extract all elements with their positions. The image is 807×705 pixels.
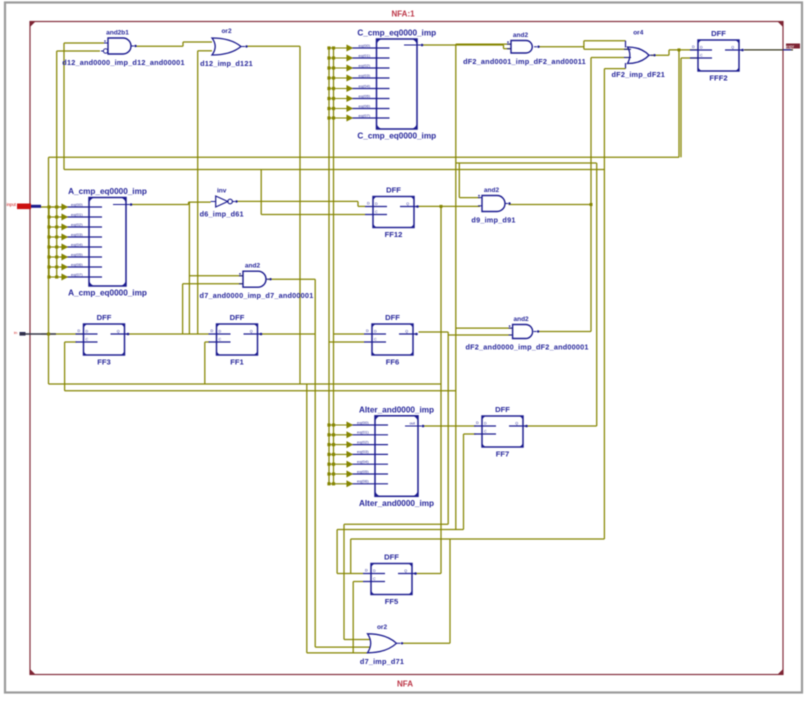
svg-text:eq(07): eq(07) <box>359 113 371 118</box>
svg-text:Q: Q <box>405 330 408 334</box>
svg-text:in: in <box>14 330 17 335</box>
svg-text:D: D <box>375 202 378 206</box>
Alter input bus taps with arrowheads <box>327 422 352 486</box>
wire H FF6.D <box>334 333 365 335</box>
svg-text:D: D <box>365 569 368 573</box>
svg-text:FFF2: FFF2 <box>709 74 727 83</box>
svg-text:eq(06): eq(06) <box>359 103 371 108</box>
svg-text:eq(06): eq(06) <box>71 262 83 267</box>
svg-text:and2: and2 <box>514 316 530 323</box>
wire V FF7.Q up x596 <box>596 163 598 426</box>
wire H FF6.Q <box>419 331 449 333</box>
svg-text:Q: Q <box>404 569 407 573</box>
wire H under or2b <box>307 652 367 654</box>
wire H FF12.C <box>261 214 365 216</box>
wire V and2b1.A drop <box>63 43 65 170</box>
wire H or2b.A <box>344 639 370 641</box>
wire V step up <box>583 41 585 50</box>
wire H long y382 <box>49 383 442 385</box>
svg-text:DFF: DFF <box>385 313 400 322</box>
svg-text:eq(00): eq(00) <box>71 202 83 207</box>
AND gate and2 (dF2_and0001) <box>507 41 537 54</box>
svg-text:Q: Q <box>117 330 120 334</box>
wire V inv.A net down <box>188 202 190 334</box>
svg-text:Q: Q <box>731 46 734 50</box>
wire V FF5.C down <box>352 582 354 653</box>
svg-text:inv: inv <box>217 188 227 195</box>
wire H and2-d7.B <box>183 283 243 285</box>
svg-text:and2b1: and2b1 <box>106 30 129 37</box>
svg-text:eq(02): eq(02) <box>71 222 83 227</box>
wire V or4.in4 down to Hc <box>603 69 605 539</box>
wire H FF7.Q <box>527 425 597 427</box>
wire V FFF2.C down to H1 <box>680 58 682 157</box>
block Alter_and0000_imp (Alter_and) <box>347 416 422 497</box>
svg-text:eq(04): eq(04) <box>359 83 371 88</box>
svg-text:eq(05): eq(05) <box>357 469 369 474</box>
wire H FF5.D <box>337 573 363 575</box>
wire V FF7.C down <box>463 434 465 530</box>
node H1-FFF2 junction junction <box>678 48 681 51</box>
wire V or4.out jog <box>668 50 670 55</box>
wire V jog and2-dF2a.B <box>503 45 505 49</box>
wire V left feedback x48 <box>48 157 50 384</box>
svg-text:eq(00): eq(00) <box>359 43 371 48</box>
wire H feedback H3 y163 <box>456 162 597 164</box>
wire H feedback H2 y167 <box>64 169 604 171</box>
svg-text:Q: Q <box>406 202 409 206</box>
svg-text:NFA: NFA <box>397 680 413 689</box>
wire V or4.in1 drop <box>625 41 627 48</box>
svg-text:D: D <box>476 421 479 425</box>
svg-text:eq(06): eq(06) <box>357 479 369 484</box>
svg-text:eq(05): eq(05) <box>359 93 371 98</box>
wire V or4.in4 rise <box>625 63 627 69</box>
svg-text:or2: or2 <box>377 624 388 631</box>
wire H FF5.Q <box>416 573 441 575</box>
svg-text:d7_imp_d71: d7_imp_d71 <box>360 657 404 666</box>
svg-text:eq(03): eq(03) <box>71 232 83 237</box>
svg-text:FF5: FF5 <box>385 597 399 606</box>
node d9out-591 junction junction <box>590 203 593 206</box>
wire V jog inv.A <box>188 202 190 204</box>
wire H step top <box>584 40 626 42</box>
svg-text:d6_imp_d61: d6_imp_d61 <box>200 210 244 219</box>
wire H FF1.Q <box>261 333 315 335</box>
svg-text:C: C <box>375 210 378 214</box>
wire H FF6.C <box>329 341 364 343</box>
wire H A_cmp.out <box>132 204 189 206</box>
wire H and2-dF2a.A <box>456 43 511 45</box>
wire V x337 to FF5.D <box>336 530 338 574</box>
svg-text:or4: or4 <box>633 30 644 37</box>
svg-text:D: D <box>692 45 695 49</box>
AND gate and2 (dF2_and0000) <box>509 325 537 339</box>
wire V C-Alter bus outer <box>328 48 330 484</box>
svg-text:DFF: DFF <box>386 186 401 195</box>
wire H FF3.C <box>65 341 77 343</box>
D flip-flop FF12 <box>365 197 418 228</box>
svg-text:eq(03): eq(03) <box>359 73 371 78</box>
svg-text:eq(03): eq(03) <box>357 449 369 454</box>
AND gate and2 (d9_imp) <box>478 196 508 212</box>
wire H FF12.Q to and2-d9.B <box>418 205 480 207</box>
wire H and2b1.B <box>57 50 100 52</box>
svg-text:eq(01): eq(01) <box>71 212 83 217</box>
block A_cmp_eq0000_imp (A_cmp) <box>61 198 130 287</box>
wire V FF12.Q net down to FF5.Q <box>440 206 442 573</box>
svg-text:C: C <box>86 338 89 342</box>
wire V x350 to FF5.D <box>350 539 352 574</box>
svg-text:eq(07): eq(07) <box>71 272 83 277</box>
A_cmp input bus taps with arrowheads <box>47 204 67 279</box>
wire H C_cmp.out <box>422 44 504 46</box>
wire H or2a.B stub <box>198 50 212 52</box>
wire H feedback H1 y155 <box>49 156 680 158</box>
svg-text:C: C <box>484 430 487 434</box>
D flip-flop FFF2 <box>690 40 743 71</box>
wire H and2b1.out <box>135 45 183 47</box>
wire H and2-d9.A <box>459 197 480 199</box>
svg-text:eq(05): eq(05) <box>71 252 83 257</box>
wire H inv.A <box>189 201 211 203</box>
OR gate or2 (d12_imp) <box>212 38 245 55</box>
C_cmp input bus taps with arrowheads <box>327 45 352 120</box>
wire H or4.in2 <box>584 48 630 50</box>
svg-text:FF6: FF6 <box>386 358 400 367</box>
wire V or2a.out down <box>299 46 301 384</box>
AND gate and2 (d7_and0000) <box>239 271 269 287</box>
svg-text:and2: and2 <box>245 263 261 270</box>
wire H and2-dF2a.B <box>504 48 512 50</box>
svg-text:FF7: FF7 <box>496 450 510 459</box>
node A-bus tap1 junction <box>55 206 58 209</box>
wire H bundle a y524 <box>344 523 448 525</box>
svg-text:D: D <box>211 329 214 333</box>
wire V jog FF12.D <box>357 201 359 206</box>
wire H long y392 <box>65 390 456 392</box>
svg-text:D: D <box>373 569 376 573</box>
D flip-flop FF1 <box>209 324 262 355</box>
svg-text:D: D <box>219 330 222 334</box>
wire H FFF2.Q to expr <box>744 49 793 51</box>
wire H or4.in4b <box>604 68 625 70</box>
svg-text:C: C <box>373 577 376 581</box>
svg-text:A_cmp_eq0000_imp: A_cmp_eq0000_imp <box>68 187 147 196</box>
svg-text:d12_and0000_imp_d12_and00001: d12_and0000_imp_d12_and00001 <box>62 58 184 67</box>
svg-text:eq(01): eq(01) <box>359 53 371 58</box>
wire H or2b.B <box>315 646 370 648</box>
wire H Alter.out to FF7.D <box>423 425 476 427</box>
wire H FF3.Q to FF1.D <box>128 333 209 335</box>
svg-text:C_cmp_eq0000_imp: C_cmp_eq0000_imp <box>357 132 436 141</box>
wire H FF5.C <box>353 581 363 583</box>
svg-text:FF1: FF1 <box>230 358 244 367</box>
svg-text:NFA:1: NFA:1 <box>391 10 415 19</box>
svg-text:DFF: DFF <box>97 313 112 322</box>
wire H FF1.C <box>205 341 210 343</box>
svg-text:C: C <box>374 338 377 342</box>
wire H or2b.out <box>402 642 450 644</box>
wire V and2-d9.A up to H3 <box>458 163 460 198</box>
inverter inv (d6_imp) <box>211 196 236 207</box>
D flip-flop FF5 <box>363 564 416 595</box>
wire V FF12.C up to H2 <box>260 170 262 215</box>
wire H and2-dF2a.out <box>538 46 584 48</box>
wire H FF3.D from in marker <box>41 333 84 335</box>
wire V FF1.C down <box>204 342 206 384</box>
wire V or2b.out up <box>449 539 451 643</box>
node A-bus tap0 junction <box>48 206 51 209</box>
svg-text:and2: and2 <box>513 32 529 39</box>
svg-text:FF12: FF12 <box>385 230 403 239</box>
wire H or2a.out <box>247 45 301 47</box>
wire H FFF2.C <box>681 57 698 59</box>
wire H inv.out <box>237 200 358 202</box>
svg-text:DFF: DFF <box>711 29 726 38</box>
svg-text:expr: expr <box>786 44 795 49</box>
wire H and2-d7.out <box>268 278 316 280</box>
wire V FF6.Q jog down <box>447 332 449 524</box>
svg-text:D: D <box>700 46 703 50</box>
svg-text:d7_and0000_imp_d7_and00001: d7_and0000_imp_d7_and00001 <box>200 291 314 300</box>
svg-text:D: D <box>484 422 487 426</box>
wire V x344 down to or2b.A <box>343 524 345 639</box>
svg-text:eq(04): eq(04) <box>357 459 369 464</box>
svg-text:DFF: DFF <box>495 405 510 414</box>
node in-FF3 junction junction <box>47 333 50 336</box>
wire H and2-d9.out <box>509 204 592 206</box>
wire V FFF2.D net down to H1 <box>678 50 680 157</box>
svg-text:D: D <box>86 330 89 334</box>
svg-text:A_cmp_eq0000_imp: A_cmp_eq0000_imp <box>68 289 147 298</box>
wire H FFF2.D <box>669 49 698 51</box>
D flip-flop FF6 <box>364 324 417 355</box>
D flip-flop FF3 <box>76 324 129 355</box>
AND gate and2b1 (d12_and0000) <box>101 38 134 54</box>
svg-text:D: D <box>78 329 81 333</box>
wire H or4.out <box>651 54 669 56</box>
wire H bundle c y539 <box>351 538 605 540</box>
svg-text:eq(02): eq(02) <box>359 63 371 68</box>
wire V jog or2a.A <box>182 42 184 46</box>
svg-text:dF2_and0000_imp_dF2_and00001: dF2_and0000_imp_dF2_and00001 <box>465 343 588 352</box>
wire H FF12.D <box>358 205 365 207</box>
svg-text:eq(00): eq(00) <box>357 420 369 425</box>
svg-text:d9_imp_d91: d9_imp_d91 <box>471 216 515 225</box>
svg-text:and2: and2 <box>484 187 500 194</box>
wire V FF3.C down <box>64 342 66 391</box>
wire H and2-d7.A <box>189 275 243 277</box>
wire V and2b1.B / H2 / A-bus outer <box>56 51 58 277</box>
node FF12Q-FF5 junction junction <box>440 205 443 208</box>
svg-text:eq(01): eq(01) <box>357 430 369 435</box>
wire V x306 left loop <box>306 384 308 653</box>
wire H input wire to A bus <box>40 206 67 208</box>
wire V x591 or4.in3 net <box>590 58 592 332</box>
wire V or2a.B from FF3.Q <box>197 51 199 334</box>
svg-text:Alter_and0000_imp: Alter_and0000_imp <box>359 405 434 414</box>
svg-text:C_cmp_eq0000_imp: C_cmp_eq0000_imp <box>357 29 436 38</box>
wire H FF7.C <box>464 433 477 435</box>
D flip-flop FF7 <box>474 416 527 447</box>
svg-text:Q: Q <box>515 422 518 426</box>
svg-text:dF2_and0001_imp_dF2_and00011: dF2_and0001_imp_dF2_and00011 <box>463 57 586 66</box>
clock input marker <box>14 330 56 336</box>
svg-text:DFF: DFF <box>230 313 245 322</box>
svg-text:DFF: DFF <box>384 553 399 562</box>
wire H and2-dF2b.A <box>456 327 513 329</box>
output port marker expr <box>783 44 800 50</box>
svg-text:eq(04): eq(04) <box>71 242 83 247</box>
wire H bundle b y529 <box>337 529 463 531</box>
OR gate or2 (d7_imp) <box>368 634 401 653</box>
wire V and2-d7.out down to or2b.B <box>314 279 316 647</box>
input port marker (left bus input) <box>7 202 50 209</box>
wire V and2-dF2b.A up <box>455 44 457 529</box>
wire H and2-dF2b.out <box>537 331 591 333</box>
block C_cmp_eq0000_imp (C_cmp) <box>349 39 421 129</box>
wire H or4.in3 <box>591 57 630 59</box>
svg-text:dF2_imp_dF21: dF2_imp_dF21 <box>612 70 666 79</box>
svg-text:D: D <box>366 329 369 333</box>
OR gate or4 (dF2_imp) <box>628 47 654 64</box>
svg-text:Alter_and0000_imp: Alter_and0000_imp <box>359 499 434 508</box>
wire H or2a.A <box>183 41 212 43</box>
svg-text:eq(02): eq(02) <box>357 439 369 444</box>
svg-text:Q: Q <box>250 330 253 334</box>
svg-text:D: D <box>367 202 370 206</box>
svg-text:C: C <box>700 54 703 58</box>
wire H and2-dF2b.B <box>448 334 512 336</box>
svg-text:or2: or2 <box>221 28 232 35</box>
wire V A-bus inner <box>48 207 50 277</box>
svg-text:C: C <box>219 338 222 342</box>
wire V C-Alter bus inner <box>333 48 335 484</box>
svg-text:D: D <box>374 330 377 334</box>
svg-text:FF3: FF3 <box>97 358 111 367</box>
svg-text:out: out <box>409 421 415 426</box>
wire V and2-d7.B down <box>182 284 184 334</box>
or4 pin stubs <box>624 49 631 57</box>
svg-text:input: input <box>7 202 17 207</box>
wire H and2b1.A <box>64 42 104 44</box>
svg-text:d12_imp_d121: d12_imp_d121 <box>200 59 253 68</box>
